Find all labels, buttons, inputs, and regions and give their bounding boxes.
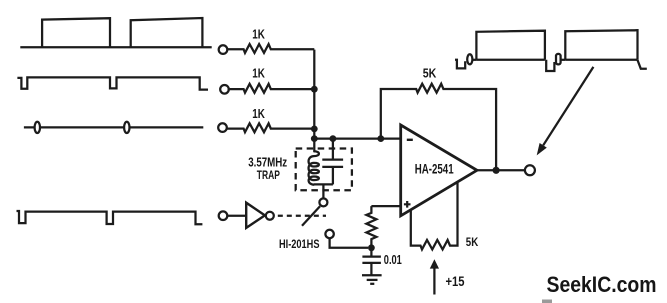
svg-text:0.01: 0.01: [384, 252, 402, 267]
svg-text:1K: 1K: [252, 106, 265, 121]
svg-text:+15: +15: [446, 274, 465, 289]
svg-text:5K: 5K: [423, 66, 437, 81]
svg-text:1K: 1K: [252, 66, 265, 81]
svg-text:HA-2541: HA-2541: [415, 160, 454, 176]
svg-text:5K: 5K: [466, 237, 479, 249]
svg-text:SeekIC.com: SeekIC.com: [547, 272, 657, 297]
svg-text:TRAP: TRAP: [257, 168, 280, 182]
svg-text:1K: 1K: [252, 27, 265, 42]
svg-text:HI-201HS: HI-201HS: [279, 238, 320, 251]
